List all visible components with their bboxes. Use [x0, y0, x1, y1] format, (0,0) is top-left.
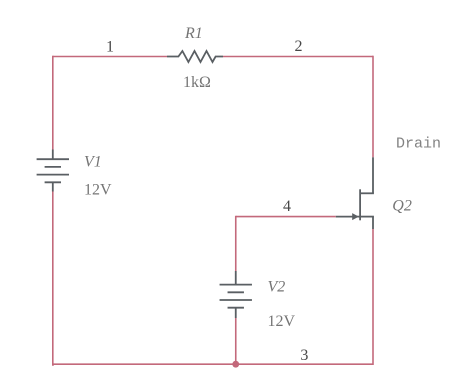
- transistor Q2: [336, 157, 374, 229]
- node 3: [300, 347, 308, 364]
- label V2: [268, 278, 286, 295]
- wire gate horizontal (node 4): [236, 216, 336, 218]
- battery V2: [220, 271, 252, 318]
- wire V2 bottom vertical: [235, 318, 237, 364]
- label 1kΩ: [183, 74, 211, 91]
- node 1: [106, 38, 114, 55]
- svg-text:3: 3: [300, 347, 308, 364]
- wire top-left horizontal (node 1): [53, 56, 167, 58]
- label 12V (V2): [268, 313, 296, 330]
- wire left vertical lower: [53, 192, 54, 366]
- label Drain: [396, 136, 441, 153]
- wire right vertical to drain: [372, 56, 374, 158]
- svg-text:Drain: Drain: [396, 136, 441, 153]
- svg-text:1kΩ: 1kΩ: [183, 74, 211, 91]
- svg-text:1: 1: [106, 38, 114, 55]
- svg-text:4: 4: [283, 198, 291, 215]
- wire top-right horizontal (node 2): [223, 56, 373, 58]
- svg-text:R1: R1: [184, 25, 203, 42]
- node 4: [283, 198, 291, 215]
- label V1: [84, 153, 102, 170]
- battery V1: [37, 150, 69, 192]
- svg-text:V2: V2: [268, 278, 286, 295]
- resistor R1: [167, 51, 223, 62]
- wire node 4 vertical: [235, 216, 237, 271]
- wire right vertical from source to bottom: [372, 229, 374, 365]
- svg-text:12V: 12V: [84, 182, 112, 199]
- svg-text:Q2: Q2: [392, 197, 412, 214]
- node 2: [295, 38, 303, 55]
- junction dot node 3: [232, 361, 239, 368]
- svg-text:V1: V1: [84, 153, 102, 170]
- wire bottom horizontal (node 3): [53, 363, 373, 365]
- label Q2: [392, 197, 412, 214]
- label 12V (V1): [84, 182, 112, 199]
- svg-text:12V: 12V: [268, 313, 296, 330]
- wire left vertical upper: [52, 56, 54, 150]
- label R1: [184, 25, 203, 42]
- svg-text:2: 2: [295, 38, 303, 55]
